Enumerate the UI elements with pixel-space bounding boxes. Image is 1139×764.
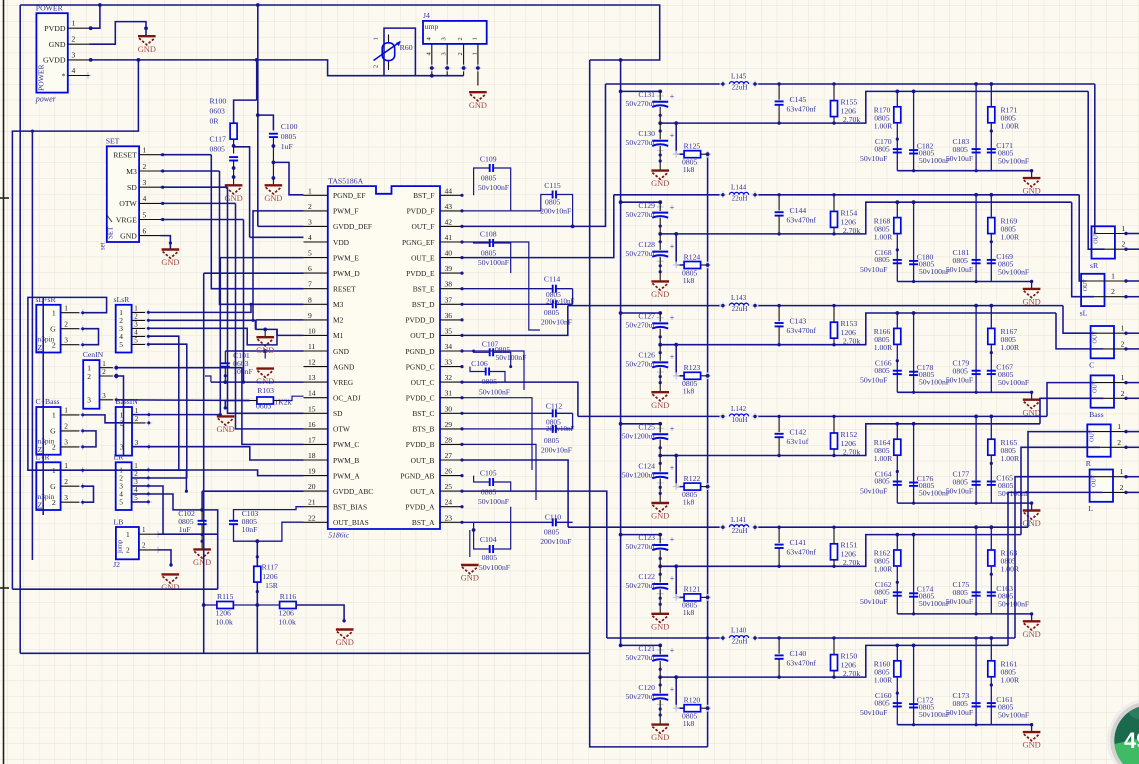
pin marker R121 2 [704,594,711,601]
svg-text:GVDD: GVDD [43,56,66,65]
svg-text:C110: C110 [545,513,562,522]
svg-text:C114: C114 [544,275,561,284]
svg-text:2: 2 [134,470,138,478]
pin lead U1 21 [304,506,328,508]
pin lead C121 bot [659,661,661,677]
svg-text:R115: R115 [217,592,234,601]
ground mid2 [256,369,274,387]
pin number SET 4 [143,194,147,203]
wire PGNG_EF route [462,242,540,330]
svg-text:2.70k: 2.70k [843,115,860,124]
junction [619,200,623,204]
svg-text:sR: sR [1090,261,1099,270]
junction [619,311,623,315]
capacitor C172 [909,704,918,707]
pin lead C101 top [224,351,226,363]
svg-text:jump: jump [117,540,124,554]
capacitor C111 [553,425,556,433]
junction [895,644,899,648]
pin marker J4 3 [444,65,451,72]
junction [777,526,780,529]
junction [832,304,835,307]
pin lead LR 5 [132,501,149,503]
svg-text:3: 3 [102,392,106,400]
svg-text:PGNG_EF: PGNG_EF [402,238,434,247]
junction GVDD [137,58,141,62]
wire bus PVDD caps [620,60,622,645]
svg-text:1: 1 [126,530,130,539]
svg-text:+: + [670,535,675,544]
wire R120 left [676,677,684,708]
svg-text:2: 2 [1120,483,1124,492]
label R151 [841,541,861,568]
label C101 [233,351,253,376]
label C160 [860,691,892,717]
capacitor C130 [652,131,675,146]
ground net L145 [1023,178,1041,196]
svg-text:PGND_EF: PGND_EF [333,191,365,200]
pin marker CenIN 2 [113,373,120,380]
junction [989,193,993,197]
wire C+Bass p1 jog [83,415,132,423]
svg-text:2: 2 [1111,287,1115,296]
svg-text:C112: C112 [546,402,563,411]
svg-text:3: 3 [134,478,138,486]
svg-text:PWM_D: PWM_D [333,269,360,278]
resistor R154 [831,211,838,227]
pin number U1 29 [445,420,453,429]
junction [674,121,678,125]
svg-text:1206: 1206 [279,609,295,618]
pin number U1 14 [308,389,316,398]
svg-text:35: 35 [445,326,453,335]
label sL+sR n3pin [38,334,55,343]
label TAS5186A [328,177,363,186]
svg-text:C105: C105 [480,469,497,478]
svg-text:2: 2 [52,443,56,452]
svg-text:4: 4 [308,233,312,242]
svg-text:22: 22 [308,513,316,522]
wire C176 col [913,424,915,503]
pin name L+R G [50,482,56,491]
junction [777,675,780,678]
junction [232,144,236,148]
wire sLsR p1 [148,304,251,312]
wire C103 top pin21 [234,507,304,521]
wire pin6 net [204,272,304,274]
pin name U1 PWM_B [333,456,359,465]
pin number Bass 2 [1121,389,1125,398]
svg-text:POWER: POWER [37,63,46,91]
capacitor C123 [652,535,675,550]
pin name U1 VDD [333,238,350,247]
svg-text:PWM_C: PWM_C [333,440,359,449]
junction [674,232,678,236]
svg-text:+: + [670,685,675,694]
svg-text:0603: 0603 [210,107,226,116]
svg-text:4: 4 [134,486,138,494]
wire pin9 net [256,319,304,321]
pin number U1 34 [445,342,453,351]
pin overline VRGE [107,215,112,222]
junction [89,58,93,62]
junction [975,502,978,505]
label R150 [841,652,861,679]
svg-text:22uH: 22uH [732,638,748,646]
pin number U1 7 [308,280,312,289]
svg-text:1.00R: 1.00R [1001,122,1020,131]
svg-text:1k8: 1k8 [683,276,695,285]
pin marker J4 4 [428,65,435,72]
label C [1089,361,1094,370]
resistor R122 [684,483,701,490]
svg-text:1: 1 [1121,373,1125,382]
wire gnd stub L140 [1031,725,1033,732]
ground R116 [336,630,354,648]
pin marker sLsR 2 [145,317,152,324]
pin name U1 BST_BIAS [333,503,367,512]
label R155 [841,98,861,125]
svg-text:+: + [670,353,675,362]
wire R103 to gnd [225,401,249,409]
label C124 [622,461,656,479]
junction [81,485,84,488]
resistor R150 [831,655,838,671]
svg-text:1206: 1206 [262,572,278,581]
pin lead U1 17 [304,443,328,445]
svg-text:10: 10 [308,326,316,335]
svg-text:22uH: 22uH [732,527,748,535]
svg-text:5: 5 [134,494,138,502]
svg-text:1: 1 [72,19,76,28]
junction [912,311,916,315]
connector SET [107,146,139,242]
capacitor C170 [893,149,902,152]
junction [1124,491,1127,494]
junction [81,501,84,504]
wire C111 left [462,428,552,430]
junction [147,500,150,503]
pin name LR 3 [119,482,123,491]
label R103 [256,386,292,411]
label J2 [113,560,120,569]
pin number sR 2 [1122,240,1126,249]
svg-text:50v100nF: 50v100nF [998,378,1029,387]
pin name U1 OC_ADJ [333,394,361,403]
capacitor C174 [909,593,918,596]
pin marker C+Bass 3 [79,444,86,451]
junction [619,90,623,94]
junction [990,462,993,465]
wire SD b [228,187,304,413]
junction [658,564,662,568]
svg-text:OUT_BIAS: OUT_BIAS [333,518,369,527]
wire sLsR p5 [148,344,186,478]
junction [659,240,662,243]
svg-text:PGND_AB: PGND_AB [400,471,434,480]
pin marker LR 4 [145,491,152,498]
svg-text:50v270uf: 50v270uf [626,321,656,330]
svg-text:L143: L143 [731,294,747,302]
wire R121 left [676,566,684,597]
inductor L142 [729,414,748,416]
pin lead C140 bot [778,659,780,677]
junction [219,413,222,416]
pin marker sLsR 1 [145,309,152,316]
pin lead U1 7 [304,288,328,290]
label POWER title [36,3,64,12]
wire rail L141 left [568,526,723,528]
wire Bass 2 out [1126,397,1139,399]
pin marker C123 [657,536,664,543]
label L144 value [732,194,748,202]
pin name U1 VREG [333,378,354,387]
svg-text:BST_D: BST_D [412,300,435,309]
junction [144,26,148,30]
svg-text:OUT_C: OUT_C [411,378,435,387]
wire rail L142 right [755,415,1047,417]
junction [460,458,463,461]
junction [989,82,993,86]
svg-text:CenIN: CenIN [83,350,104,359]
wire GVDD to R100 [256,60,258,100]
pin name U1 OUT_A [410,487,435,496]
junction [147,445,150,448]
junction [256,590,259,593]
pin number U1 21 [308,498,316,507]
pin number U1 23 [445,513,453,522]
label C126 [626,351,656,369]
svg-text:L140: L140 [731,627,747,635]
junction [169,241,172,244]
ground C102 [193,549,211,567]
wire OUT_A riser [462,491,607,638]
junction [832,454,835,457]
svg-text:6: 6 [308,264,312,273]
junction [912,644,916,648]
label sL+sR Z [38,343,43,352]
label C130 [626,129,656,147]
wire C106 right [489,372,505,383]
svg-text:8: 8 [308,295,312,304]
wire C110 left [462,521,552,523]
svg-text:50v10uF: 50v10uF [860,376,887,385]
svg-text:17: 17 [308,435,316,444]
svg-text:28: 28 [445,435,453,444]
svg-text:GND: GND [651,512,669,521]
label L+R n3pin [38,492,55,501]
capacitor C162 [893,592,902,595]
svg-text:GND: GND [333,347,350,356]
pin marker R123 1 [673,372,680,379]
svg-text:+: + [670,646,675,655]
pin lead C126 bot [659,368,661,393]
wire rail L141 right [755,526,1028,528]
svg-text:OUT_D: OUT_D [410,331,435,340]
junction [674,454,678,458]
junction [658,232,662,236]
pin lead U1 1 [304,194,328,196]
pin lead C+Bass 3 [61,446,83,448]
pin lead U1 24 [440,506,462,508]
svg-text:0805: 0805 [544,528,560,537]
svg-text:6: 6 [143,226,147,235]
pin lead U1 8 [304,303,328,305]
junction [201,533,204,536]
pin lead C 2 [1104,348,1126,350]
svg-text:50v270uf: 50v270uf [626,249,656,258]
wire node rail L145 [660,91,1088,123]
pin marker C+Bass 1 [79,412,86,419]
svg-text:50v100nF: 50v100nF [998,489,1029,498]
junction [777,121,780,124]
capacitor C178 [909,372,918,375]
junction [659,557,662,560]
label L142 value [732,416,748,424]
pin marker C128 bot [657,258,664,265]
label LR title [114,452,125,461]
connector L+R [36,462,60,510]
connector BassIN [116,407,132,456]
pin number BassIN 2 [135,415,139,423]
svg-text:2.70k: 2.70k [843,558,860,567]
pin name L+R 1 [52,466,56,475]
pin number U1 32 [445,373,453,382]
ground J4 [469,92,487,110]
pin number C+Bass 3 [64,438,68,447]
svg-text:30: 30 [445,404,453,413]
junction [460,287,463,290]
svg-text:0805: 0805 [953,367,969,376]
resistor R160 [894,661,901,677]
pin lead U1 13 [304,381,328,383]
svg-text:C108: C108 [480,230,497,239]
svg-text:50v270uf: 50v270uf [626,653,656,662]
badge green circle [1107,698,1139,764]
svg-text:5186ic: 5186ic [328,531,349,540]
capacitor C182 [909,150,918,153]
svg-text:GND: GND [651,179,669,188]
svg-text:0805: 0805 [953,256,969,265]
wire OUT_D riser [462,306,568,336]
wire net bottom L145 [897,170,1031,172]
resistor R166 [894,328,901,344]
ground C128 [651,281,669,299]
wire C131 top feed [621,90,661,92]
pin lead C127 bot [659,329,661,345]
svg-text:2: 2 [134,313,138,321]
wire feed R 2 [1021,447,1100,534]
junction [81,311,84,314]
pin lead C143 top [778,306,780,322]
wire sR 2 out [1126,248,1139,250]
pin lead C+Bass 2 [61,430,83,432]
pin number J4 1 outer [471,52,478,55]
pin name PVDD [44,24,66,33]
junction [460,443,463,446]
svg-text:BST_C: BST_C [412,409,434,418]
pin marker C+Bass 2 [79,428,86,435]
junction [81,343,84,346]
pin marker sL+sR 1 [79,309,86,316]
label R122 [682,474,700,507]
junction [81,429,84,432]
wire R165 top [990,416,992,439]
wire c101 left [205,376,211,382]
wire VRGE a [161,219,244,221]
capacitor C117 [229,157,238,160]
capacitor C102 [198,521,207,524]
op-amp U1 TAS5186A body [328,186,440,529]
wire C179 col [975,306,977,393]
junction [147,335,150,338]
svg-text:63v470nf: 63v470nf [787,548,817,557]
junction [460,303,463,306]
pin marker LB 2 [155,547,162,554]
junction [1124,475,1127,478]
pin lead CenIN 1 [100,367,117,369]
wire C113 left [462,303,552,305]
junction [430,74,434,78]
svg-text:1: 1 [142,526,146,534]
pin number SET 3 [143,178,147,187]
pin lead sR 1 [1097,233,1127,235]
resistor R164 [894,439,901,455]
svg-text:+: + [670,203,675,212]
svg-text:+: + [670,574,675,583]
junction [659,462,662,465]
pin name L+R 2 [52,498,56,507]
pin lead J4 2 [463,44,465,76]
wire bottom return [590,653,708,747]
label C123 [626,533,656,551]
svg-text:50v10uF: 50v10uF [860,486,887,495]
svg-text:50v100nF: 50v100nF [998,267,1029,276]
junction [658,644,662,648]
wire bottom loop [12,588,217,590]
pin name SET OTW [119,199,137,208]
junction [777,415,780,418]
resistor R151 [831,544,838,560]
wire sL+sR p1 loop [28,297,107,470]
pin number U1 8 [308,295,312,304]
pin number L 2 [1120,483,1124,492]
wire CenIN p1 PWM_C [116,368,303,445]
pin name CenIN 3 [87,396,91,405]
svg-text:0805: 0805 [210,145,226,154]
pin lead C102 top [201,510,203,521]
svg-text:1uF: 1uF [281,142,293,151]
pin lead U1 33 [440,366,462,368]
pin marker L144 2 [752,191,759,198]
pin name U1 BST_C [412,409,434,418]
junction [674,675,678,679]
pin number U1 38 [445,280,453,289]
connector sL+sR [36,305,60,353]
wire feed L 2 [1008,492,1103,645]
label C174 [917,585,950,609]
wire R115 left [204,604,217,606]
wire R 1 out [1126,431,1139,433]
label C145 [787,95,817,114]
pin lead L 1 [1095,476,1126,478]
pin number sLsR 1 [134,305,138,313]
svg-text:R151: R151 [841,541,858,550]
pin lead R153 top [833,306,835,323]
pin marker C122 bot [657,590,664,597]
pin lead U1 16 [304,428,328,430]
pin name C+Bass 1 [52,411,56,420]
